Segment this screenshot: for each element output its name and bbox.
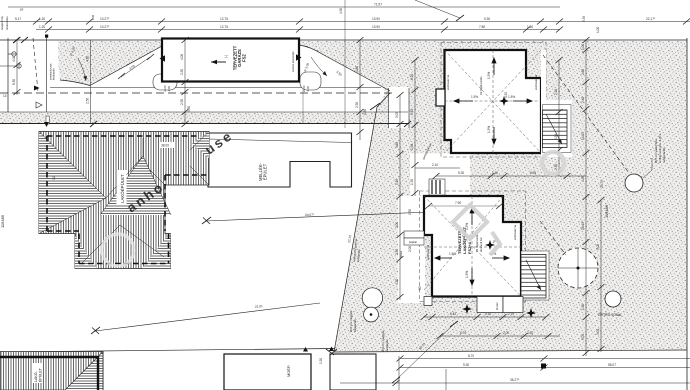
label LAKOEPULET [117,170,127,204]
property corner ticks [13,37,411,355]
garage building [160,39,302,82]
top dimension chain row2 [36,25,560,30]
svg-text:+0.00: +0.00 [163,85,167,92]
svg-text:FSZ: FSZ [242,54,247,62]
left column vertical [46,36,48,112]
svg-text:kiváltandó: kiváltandó [52,68,56,80]
white area between right buildings [410,154,470,196]
dim 4.80 vertical x90 [89,40,91,124]
svg-text:4.35: 4.35 [581,176,585,182]
property line bottom of sidewalk [0,123,409,125]
dashed utility diagonal [543,55,629,173]
white path corridor [389,87,410,128]
survey line 22.01 [91,303,320,334]
svg-text:3.05: 3.05 [596,244,600,250]
watermark text diagonal over plan [124,128,236,216]
right chain x601 [596,197,605,352]
svg-text:-0.49: -0.49 [306,86,310,92]
sidewalk top line [0,111,408,113]
label 38.00 [160,142,174,148]
middle vertical chain x360 [355,37,367,140]
svg-text:2.48: 2.48 [581,97,585,103]
mellek epulet outbuilding [208,133,352,187]
svg-text:6.20: 6.20 [410,74,414,80]
watermark circle glyph [542,152,564,174]
big house (existing) [39,132,209,269]
sidewalk stipple band [0,112,408,124]
svg-text:8.70: 8.70 [468,354,474,358]
svg-text:meglevő ép.: meglevő ép. [0,16,4,30]
svg-text:-0.49: -0.49 [167,86,171,92]
utility circles left [0,52,21,68]
svg-text:LAKÓ-: LAKÓ- [33,370,38,382]
svg-text:3.65: 3.65 [395,142,399,148]
svg-text:2.10: 2.10 [432,163,438,167]
boundary diagonal west of right field [334,93,390,352]
svg-text:5.39: 5.39 [582,16,586,22]
svg-text:2.20: 2.20 [527,331,533,335]
svg-text:MÜÉP.: MÜÉP. [286,365,291,377]
south boundary line [0,349,335,353]
dim line y176 below upper building [433,171,587,179]
svg-text:esőcsatorna: esőcsatorna [513,224,517,240]
svg-text:1.5%: 1.5% [449,252,456,256]
stairs of lower building [521,251,549,300]
stairs of upper building [543,105,572,153]
svg-text:3.05: 3.05 [395,112,399,118]
open triangle marker [36,102,42,108]
svg-text:7.80: 7.80 [479,25,485,29]
white margin left of lower building [398,196,425,303]
svg-text:1.10: 1.10 [485,312,491,316]
svg-text:4.30: 4.30 [187,106,191,112]
svg-text:1.5%: 1.5% [508,95,515,99]
svg-text:A2 légtéresítés: A2 légtéresítés [479,76,483,95]
svg-text:14: 14 [3,94,7,98]
watermark large glyph fragments [453,205,500,255]
svg-text:1.50: 1.50 [581,304,585,310]
star symbols [485,240,495,250]
trees: two small circles center-bottom [362,288,382,322]
vertical line x345 top [344,0,346,128]
slope arrows [435,208,509,285]
survey line 20.67 [202,212,430,224]
svg-text:3.05: 3.05 [581,334,585,340]
apron right of garage [300,72,321,90]
svg-text:2.50: 2.50 [180,99,184,105]
svg-text:12.75: 12.75 [220,17,228,21]
bin boxes near path [429,179,445,195]
svg-text:2.50: 2.50 [180,69,184,75]
svg-text:1.98: 1.98 [410,144,414,150]
svg-text:22.17⁵: 22.17⁵ [646,17,656,21]
svg-text:2.00: 2.00 [395,222,399,228]
dashed diagonal left [33,38,38,92]
svg-text:ÉPÍTÉSI VONAL: ÉPÍTÉSI VONAL [598,312,622,317]
vertical chain x400 [395,92,404,300]
hip and ridge lines [39,132,209,264]
svg-text:2.30: 2.30 [554,164,558,170]
svg-text:5.17: 5.17 [15,17,21,21]
bottom dim line y367 [397,363,690,371]
driveway diagonal garage right [299,45,390,91]
svg-text:1.5%: 1.5% [465,271,469,278]
svg-text:116486: 116486 [604,204,609,218]
vertical chain x415 [410,57,419,196]
svg-text:4.36: 4.36 [91,14,95,20]
garage vertical chain [180,37,191,127]
dim 3.50 along driveway slope [118,54,154,79]
svg-text:esővíz elvezetés: esővíz elvezetés [291,51,295,72]
svg-text:38.00: 38.00 [161,144,169,148]
svg-text:36.27⁵: 36.27⁵ [510,378,520,382]
path corridor edges [388,88,390,128]
svg-text:esőcsatorna: esőcsatorna [534,74,538,90]
slope arrows [454,58,532,144]
svg-text:1.20: 1.20 [39,25,45,29]
R3.00 arc left [78,58,86,81]
svg-text:(-): (-) [224,55,228,58]
svg-text:ÉPÜLET: ÉPÜLET [38,367,43,382]
svg-text:4.35: 4.35 [554,134,558,140]
left notch box [436,89,445,106]
bottom dim chain y317 [421,312,550,320]
svg-text:2.50: 2.50 [355,102,359,108]
watermark faint circle glyph [102,234,134,266]
svg-text:kivágandó: kivágandó [385,339,389,352]
bottom dim line y383 [340,378,690,386]
bottom dim chain y336 [437,331,561,339]
svg-text:12: 12 [52,176,56,180]
svg-text:10.27⁵: 10.27⁵ [100,17,110,21]
south stipple bottom line [334,350,687,352]
second bottom rectangle [330,354,376,390]
svg-text:2.70: 2.70 [508,312,514,316]
roof envelope dashed [424,196,521,297]
svg-text:14.05: 14.05 [581,132,585,140]
svg-text:12.75: 12.75 [220,25,228,29]
svg-text:elszívott ber: elszívott ber [479,237,483,252]
svg-text:esőcsatorna: esőcsatorna [446,74,450,90]
svg-text:58.07: 58.07 [608,363,616,367]
svg-text:20.67⁵: 20.67⁵ [305,213,315,217]
stipple big right field [299,41,687,352]
svg-text:9.30: 9.30 [484,17,490,21]
svg-text:1.50: 1.50 [319,358,323,364]
lower right building [420,191,526,302]
kerb line [50,87,381,89]
svg-text:4.20: 4.20 [395,279,399,285]
svg-text:13.90: 13.90 [372,17,380,21]
entry boxes left of lower building [404,231,424,245]
svg-text:1.00: 1.00 [596,27,600,33]
svg-text:4.00: 4.00 [12,56,16,62]
svg-text:7.90: 7.90 [455,201,461,205]
svg-text:1.5%: 1.5% [487,126,491,133]
svg-text:10.27⁵: 10.27⁵ [100,25,110,29]
svg-text:+4.32: +4.32 [504,92,508,100]
right chain x586 [581,37,590,356]
stipple verge left of garage [58,41,162,86]
svg-text:4.30: 4.30 [363,109,367,115]
garage door marker left [160,55,166,61]
bottom-left house [0,352,103,390]
svg-text:116485: 116485 [0,214,5,228]
svg-text:+0.00: +0.00 [302,85,306,92]
svg-text:8.30: 8.30 [12,79,16,85]
slope arrow in garage [211,61,226,63]
driveway diagonal garage left [60,46,162,86]
svg-text:4.00: 4.00 [180,54,184,60]
svg-text:25.75: 25.75 [600,180,604,188]
svg-text:4.80: 4.80 [86,56,90,62]
svg-text:terasz: terasz [495,302,499,310]
svg-text:13.90: 13.90 [372,25,380,29]
svg-text:2.50: 2.50 [86,98,90,104]
svg-text:rendezetlen: rendezetlen [5,16,9,30]
svg-text:2.35: 2.35 [408,209,412,215]
svg-text:1.35: 1.35 [410,179,414,185]
tree circle upper right [625,174,643,192]
bottom dim line y358 [397,354,690,362]
top dimension chain row1 [0,16,690,22]
svg-text:1.00: 1.00 [581,44,585,50]
right boundary vertical [686,38,688,390]
svg-text:bejárat: bejárat [409,240,417,244]
svg-text:28.42⁵: 28.42⁵ [581,220,585,230]
diagonal arrow bottom middle [396,324,454,380]
WEP rectangle [224,354,311,390]
upper right building [436,43,546,158]
svg-text:2.00: 2.00 [503,331,509,335]
left top vertical line [7,38,9,112]
big dashed tree circle [558,248,598,288]
svg-text:1.5%: 1.5% [487,72,491,79]
svg-text:1.10: 1.10 [492,171,498,175]
garage door marker right [296,54,302,60]
svg-text:ÉPÜLET: ÉPÜLET [263,163,268,180]
svg-text:4.80: 4.80 [355,66,359,72]
svg-text:kivágandó: kivágandó [353,319,357,332]
svg-text:2.00: 2.00 [408,246,412,252]
R3.00 arc right [311,57,327,76]
svg-text:FSZ+1: FSZ+1 [467,241,472,254]
street top line [0,39,687,41]
protrusion corner wedges horizontal hatch [75,236,97,269]
street dashed centerline [0,92,393,94]
white margin around upper stairs [541,100,572,157]
dimension ticks top [33,19,690,33]
right chain x559 [554,57,563,176]
star below building [462,304,472,314]
bold dashed wall outline [47,136,207,264]
svg-text:LAKÓÉPÜLET: LAKÓÉPÜLET [120,174,125,203]
center star symbol [499,96,509,106]
svg-text:3.65: 3.65 [410,109,414,115]
svg-text:6.70: 6.70 [460,331,466,335]
small tree circle right [605,291,621,307]
svg-text:2.10: 2.10 [554,89,558,95]
svg-text:1.5%: 1.5% [471,95,478,99]
top dimension chain 71.97 [8,0,560,21]
svg-text:2.80: 2.80 [581,69,585,75]
left vertical dimension chain [12,37,21,95]
svg-text:71.97: 71.97 [374,3,382,7]
svg-text:5.40: 5.40 [450,312,456,316]
center gable wedge horizontal hatch [100,156,171,215]
svg-text:4.90: 4.90 [339,8,343,14]
svg-text:megtartandó: megtartandó [662,147,666,163]
terrace boxes below lower building [424,297,523,313]
svg-text:2.30: 2.30 [395,249,399,255]
svg-text:esőcsatorna: esőcsatorna [426,244,430,260]
svg-text:5.30: 5.30 [458,171,464,175]
dim line y168 left of upper building [415,163,460,168]
svg-text:3.01: 3.01 [596,329,600,335]
svg-text:9.30: 9.30 [463,363,469,367]
wing corner wedge [192,132,209,159]
roof envelope dashed [445,50,542,153]
svg-text:6.35: 6.35 [530,171,536,175]
left hip wedge horizontal hatch [39,132,106,234]
svg-text:5.95: 5.95 [395,179,399,185]
apron left of garage [153,74,177,90]
svg-text:60: 60 [418,286,422,290]
